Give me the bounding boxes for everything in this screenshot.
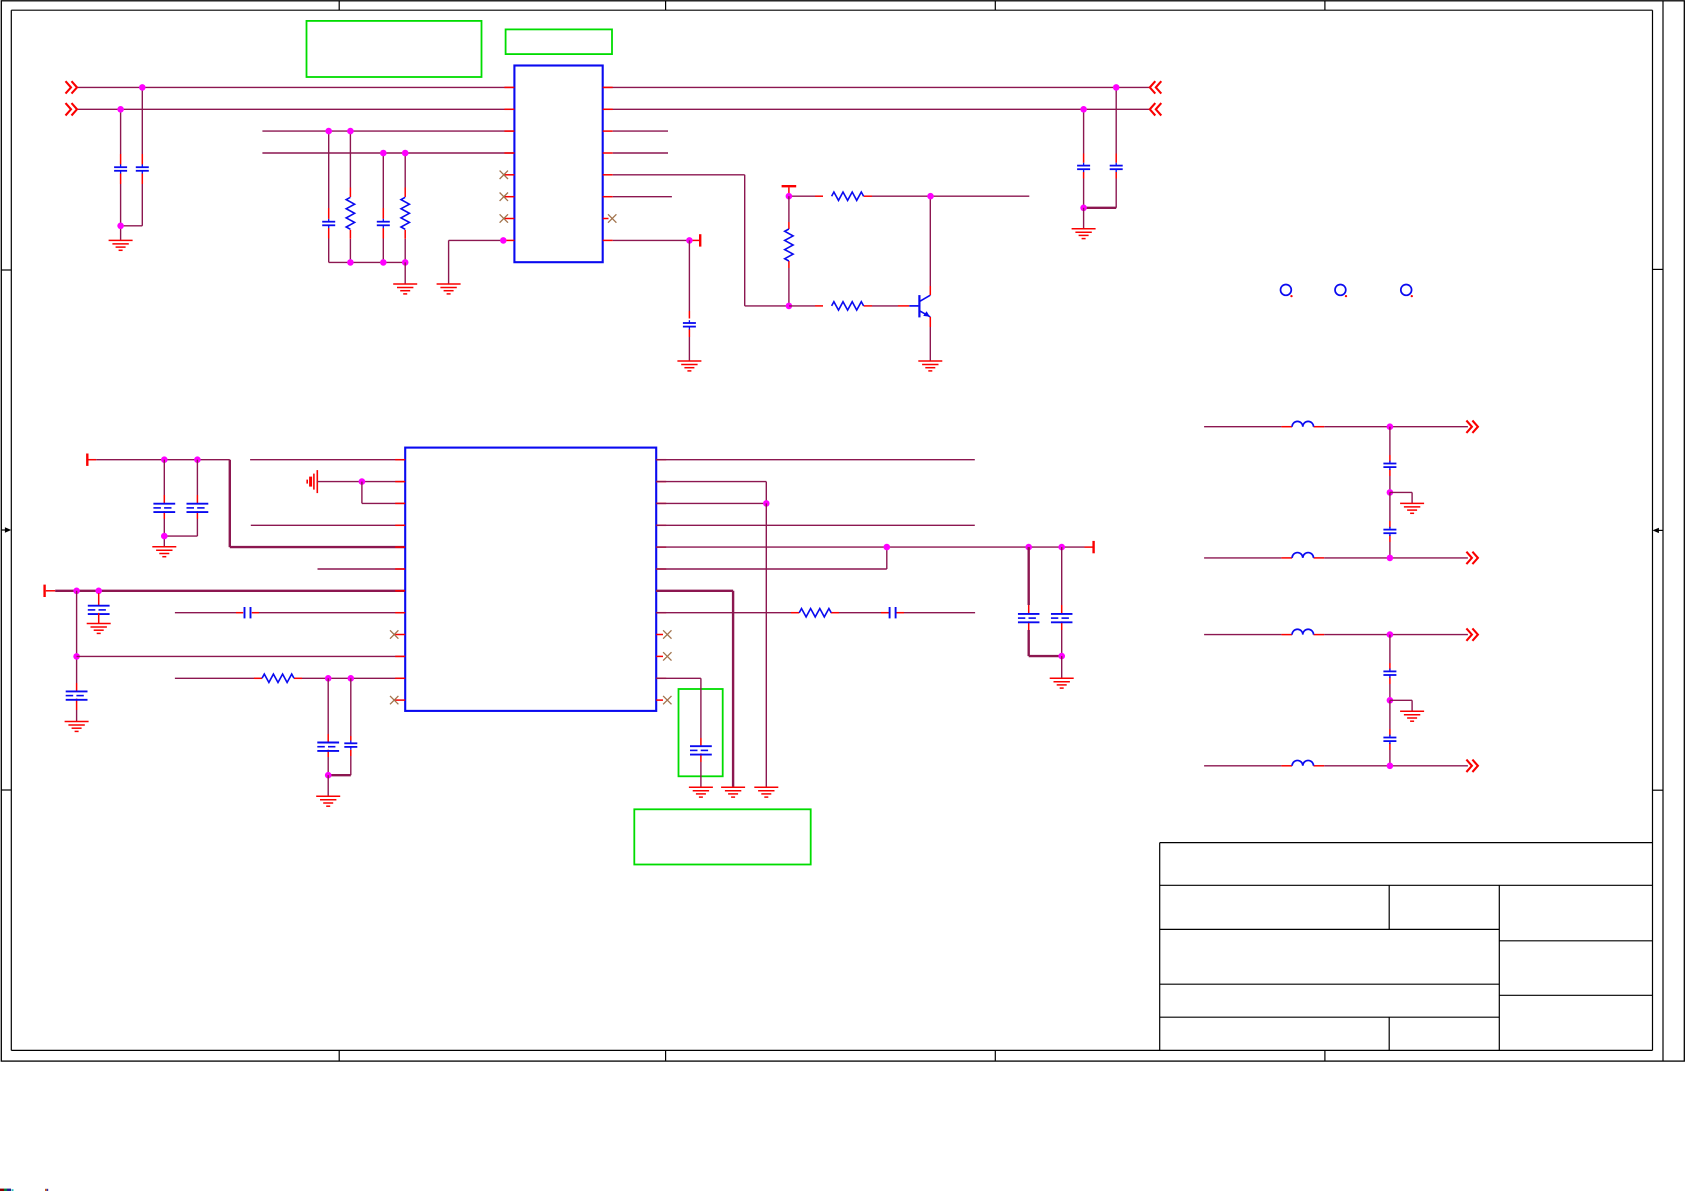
wire T2 red stub [89,459,97,461]
green box 1 [307,21,482,77]
title block right row line A [1499,940,1652,942]
no-connect X U2 left pin12 [390,696,398,704]
wire filterB1 out [1324,634,1468,636]
U2 right pin stubs [656,460,666,679]
junction dot Q1 collector net [927,193,934,200]
junction dot rail R2 [402,259,409,266]
wire C11 ground stem [76,710,78,722]
wire U1 pin6 right [613,196,672,198]
junction dot filterB1 [1387,631,1394,638]
no-connect X U1 right pin7 [608,214,616,222]
no-connect X U1 pin6 [500,193,508,201]
wire U2 pin2 [317,481,405,483]
wire filterA gnd link [1390,492,1412,503]
wire U2 pin10 [77,655,406,657]
wire C6 red leads [1115,154,1117,179]
wire C1 branch vertical [120,109,122,226]
wire C14 red leads [350,736,352,756]
wire C9 red leads [196,495,198,519]
capacitor C9 [187,504,209,512]
wire U2 pin6 right [656,547,887,569]
junction dot C1 join [117,223,124,230]
capacitor C21 [1383,669,1396,678]
inductor L2 [1292,553,1313,558]
junction dot U1 pin8 left [500,237,507,244]
wire C15 red leads [881,612,904,614]
wire U1 pin8 red to terminator [690,239,699,241]
title block divider x1389 top [1388,885,1390,929]
chassis ground left-facing [307,470,317,493]
ground G13 [689,787,713,797]
off-page connector outB2 [1466,760,1478,772]
junction dot filterA mid [1387,489,1394,496]
junction dot C10 [95,588,102,595]
wire Q1 emitter red lead [929,317,931,327]
junction dot net2 right [1080,106,1087,113]
wire R7 red leads [791,612,839,614]
title block right row line B [1499,994,1652,996]
wire U2 pin4 right [656,524,975,526]
junction dot C11 mid [73,653,80,660]
wire AVDD thick rail [55,590,405,592]
no-connect X U1 pin5 [500,171,508,179]
terminator T4 [1092,541,1094,553]
ground G12 [721,787,745,797]
title block row line B [1160,983,1500,985]
U1 left pin stubs [504,87,514,240]
no-connect X U2 right pin12 [663,696,671,704]
wire C22 branch [1389,700,1391,766]
terminator T2 [86,454,88,466]
wire C19 red leads [1389,455,1391,476]
transistor Q1 [909,295,930,317]
ground G3 [437,284,461,294]
capacitor C14 [344,741,357,750]
junction dot C18 join [1058,653,1065,660]
wire C7 ground stem [1083,208,1085,229]
right border center arrow [1653,528,1664,533]
junction dot net3 a [325,128,332,135]
ground G5 [918,361,942,371]
capacitor C8 [153,504,175,512]
off-page connector net2 left [66,103,78,115]
wire filterB2 in [1204,765,1281,767]
wire U2 pin1 [250,459,405,461]
junction dot pin5 C18 [1058,544,1065,551]
green box 3 around C17 [679,689,723,776]
wire C7 branch [1083,109,1085,208]
wire C14 branch [350,678,352,775]
wire C2 branch vertical [141,87,143,225]
ground G6 [1072,229,1096,239]
ground G9 [65,722,89,732]
title block outline [1160,843,1653,1051]
junction dot C8 [161,456,168,463]
wire U1 pin5 right to Q1 [613,175,789,306]
wire filterA2 in [1204,557,1281,559]
capacitor C18 [1051,614,1073,622]
terminator T3 [43,585,45,597]
wire C20 branch [1389,492,1391,558]
wire U2 pin1 right [656,459,975,461]
wire C11 red leads [76,683,78,710]
wire R3 red leads [815,195,872,197]
wire C6 branch [1115,87,1117,207]
junction dot C9 [194,456,201,463]
title block row line A [1160,928,1500,930]
U2 right X pin stubs [656,635,663,701]
junction dot pin5-pin6 [884,544,891,551]
junction dot pin3 link [763,500,770,507]
wire filterA1 in [1204,426,1281,428]
wire U2 pin7 thick right [656,591,733,787]
wire C3 red leads [328,208,330,239]
inductor L3 [1292,629,1313,634]
junction dot net4 a [380,150,387,157]
wire C6-C7 join thick [1084,207,1117,209]
power stem VCC [788,187,790,196]
wire U1 pin3 right [613,130,668,132]
wire C13-C14 join thick [328,774,351,776]
wire C13 ground stem [327,775,329,796]
capacitor C2 [136,164,149,173]
junction dot pin5 C17 [1025,544,1032,551]
wire C19 branch [1389,427,1391,493]
ground G11 [754,787,778,797]
wire filterB1 in [1204,634,1281,636]
capacitor C17 [1018,614,1039,622]
resistor R7 [799,609,831,617]
wire C9 branch [196,460,198,536]
wire C12 red leads [236,612,259,614]
junction dot filterB mid [1387,697,1394,704]
capacitor C13 [317,743,339,751]
wire C21 red leads [1389,663,1391,684]
junction dot U1 pin8 right [686,237,693,244]
mcu U2 body [405,448,656,711]
ground G15 [1400,503,1424,513]
ground G4 [677,361,701,371]
wire U1 pin8 right [613,239,690,241]
top border zone ticks [339,1,1325,10]
wire C5 red leads [688,311,690,337]
wire C1 red leads [120,154,122,184]
wire R1 branch [349,131,351,262]
junction dot rail R1 [347,259,354,266]
wire U1 pin8 left [449,239,505,241]
wire L4 red leads [1281,765,1324,767]
wire R2 branch [404,153,406,262]
no-connect X U1 pin7 [500,214,508,222]
junction dot filterA2 [1387,555,1394,562]
wire C20 red leads [1389,521,1391,542]
left border zone ticks [1,270,11,790]
wire filterA1 out [1324,426,1468,428]
no-connect X U2 right pin9 [663,630,671,638]
junction dot C7 join [1080,205,1087,212]
capacitor C6 [1110,163,1123,172]
off-page connector outA1 [1466,421,1478,433]
junction dot net1 [139,84,146,91]
off-page connector net1 right [1150,81,1162,93]
wire T3 red stub [46,590,55,592]
junction dot net3 b [347,128,354,135]
bottom edge text artifact [0,1189,48,1191]
off-page connector outA2 [1466,552,1478,564]
wire filterB2 out [1324,765,1468,767]
resistor R3 [832,192,864,200]
wire L1 red leads [1281,426,1324,428]
wire C4 red leads [382,208,384,239]
junction dot net1 right [1113,84,1120,91]
wire Q1 collector red lead [929,286,931,295]
junction dot net4 b [402,150,409,157]
connector hole P2 [1335,285,1347,298]
connector hole P1 [1281,285,1293,298]
connector hole P3 [1401,285,1413,298]
junction dot rail C4 [380,259,387,266]
wire VDD thick L [230,460,405,547]
wire RC bottom rail [329,261,406,263]
wire Q1 collector [929,196,931,286]
wire C2 red leads [141,154,143,184]
wire C21 branch [1389,635,1391,701]
ground G1 [109,240,133,250]
capacitor C5 [683,320,696,329]
U1 right pin7 stub [603,218,609,220]
wire net3 horizontal [262,130,514,132]
wire U2 pin8 right row [656,612,975,614]
capacitor C7 [1077,163,1090,172]
wire R2 red leads [404,188,406,239]
junction dot U2 pin2 [359,478,366,485]
resistor R2 [401,197,409,229]
wire C18 branch [1061,547,1063,656]
capacitor C16 [690,746,712,754]
wire R1 red leads [349,188,351,239]
title block row line C [1160,1016,1500,1018]
off-page connector outB1 [1466,628,1478,640]
wire L2 red leads [1281,557,1324,559]
green box 2 [506,29,612,54]
capacitor C20 [1383,527,1396,536]
junction dot C13 [325,675,332,682]
wire net2 horizontal [77,108,1150,110]
wire C17 red leads [1028,605,1030,630]
power bar VCC [782,185,797,187]
wire C11 branch [76,591,78,683]
wire U2 pin2 right [656,482,766,504]
wire U2 pin3 right [656,502,766,504]
junction dot filterB2 [1387,763,1394,770]
capacitor C12 series [245,607,251,618]
right border zone ticks [1653,269,1664,790]
off-page connector net2 right [1150,103,1162,115]
wire R3 row [789,195,1029,197]
junction dot C11 [73,588,80,595]
wire C3 branch [328,131,330,262]
wire R5 red leads [815,305,909,307]
no-connect X U2 left pin9 [390,630,398,638]
junction dot VCC [786,193,793,200]
junction dot net2 [117,106,124,113]
capacitor C10 [88,606,110,614]
ground G16 [1400,711,1424,721]
wire U1 pin4 right [613,152,668,154]
capacitor C15 series [890,607,896,618]
wire filterA2 out [1324,557,1468,559]
ground G14 [1050,678,1074,688]
capacitor C4 [377,219,390,228]
ground G10 [316,796,340,806]
U1 right pin stubs [603,87,613,240]
wire U2 pin8 row [175,612,405,614]
wire pin2 ground drop [765,503,767,787]
title block divider x1389 bottom [1388,1017,1390,1050]
wire U2 pin4 [251,524,405,526]
wire C7 red leads [1083,154,1085,179]
terminator T1 [699,234,701,246]
wire C18 red leads [1061,605,1063,630]
wire R4 branch vertical [788,196,790,306]
wire C5 branch vertical [688,240,690,361]
wire net1 horizontal [77,86,1150,88]
inductor L4 [1292,760,1313,765]
title block row line full [1160,884,1653,886]
right margin line [1662,1,1664,1061]
wire C4 branch [382,153,384,262]
green box 4 [634,809,810,864]
wire U2 pin11 right [656,678,701,738]
wire pin5 red to terminator [1085,546,1093,548]
wire C13 red leads [327,734,329,757]
junction dot C13 join [325,772,332,779]
wire C17 thick branch [1027,547,1029,605]
wire C8-C9 join [164,536,197,547]
capacitor C19 [1383,461,1396,470]
wire Q1 emitter [929,327,931,361]
no-connect X U2 right pin10 [663,652,671,660]
wire U2 pin11 row [175,677,405,679]
wire VDD rail [96,459,230,461]
resistor R4 [785,229,793,261]
wire C22 red leads [1389,729,1391,750]
U2 left pin stubs [395,460,405,700]
inductor L1 [1292,421,1313,426]
wire net4 horizontal [262,152,514,154]
title block divider x1499 [1498,885,1500,1050]
wire filterB gnd link [1390,700,1412,711]
resistor R6 [262,674,294,682]
bottom border zone ticks [339,1050,1325,1061]
ground G7 [152,547,176,557]
wire rail ground stem [404,262,406,284]
junction dot C14 [348,675,355,682]
wire C18 ground stem [1061,656,1063,678]
wire C10 red lead bottom [98,613,100,624]
wire U2 pin6 [318,568,406,570]
capacitor C11 [66,691,88,699]
junction dot R4 bottom [786,303,793,310]
resistor R5 [832,302,864,310]
wire C8 red leads [163,495,165,519]
wire C17 thick bottom [1029,630,1062,656]
wire C8 branch [163,460,165,536]
wire U2 pin5 right [656,546,1084,548]
capacitor C1 [114,164,127,173]
resistor R1 [346,197,354,229]
wire C16 red leads [700,738,702,762]
capacitor C22 [1383,735,1396,744]
wire C10 red lead top [98,593,100,606]
wire R5 row [789,305,898,307]
off-page connector net1 left [66,81,78,93]
junction dot filterA1 [1387,423,1394,430]
wire C1-C2 join [121,226,143,241]
wire R6 red leads [254,677,302,679]
wire R4 red leads [788,222,790,268]
wire C13 branch [327,678,329,775]
wire U2 pin2-pin3 link [362,482,405,504]
capacitor C3 [322,219,335,228]
wire C16 ground stem [700,762,702,787]
ground G8 [87,624,111,634]
junction dot C8 join [161,533,168,540]
wire L3 red leads [1281,634,1324,636]
left border center arrow [1,527,11,532]
ground G2 [393,284,417,294]
wire U1 pin8 ground stem [448,240,450,284]
op-amp U1 body [514,66,602,263]
